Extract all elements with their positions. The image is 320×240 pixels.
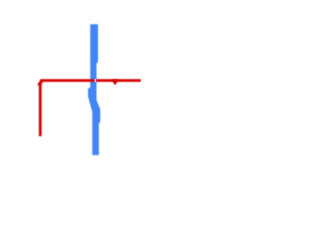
node white gap backing (94, 79, 96, 82)
node red corner wedge (37, 79, 43, 85)
wire red horizontal segment right (96, 79, 141, 82)
wire red vertical segment (39, 84, 42, 136)
wire blue route polyline (88, 24, 100, 155)
node arrow marker (112, 79, 119, 84)
wire red horizontal segment left (41, 79, 95, 82)
